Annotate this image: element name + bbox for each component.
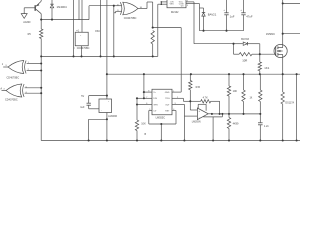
svg-text:5: 5 [149, 109, 150, 111]
svg-text:5V: 5V [81, 96, 84, 98]
svg-text:VSS: VSS [170, 3, 175, 5]
svg-text:1: 1 [173, 91, 174, 93]
svg-text:OUT: OUT [165, 104, 170, 106]
svg-text:R15: R15 [196, 86, 201, 89]
svg-text:CD4070BC: CD4070BC [5, 98, 18, 101]
svg-text:DS117A: DS117A [285, 101, 294, 104]
svg-text:1uF: 1uF [230, 15, 235, 19]
svg-text:7: 7 [146, 97, 147, 99]
svg-text:A: A [0, 87, 2, 91]
svg-text:4K99: 4K99 [233, 122, 239, 125]
svg-text:6: 6 [146, 103, 147, 105]
svg-text:CD4070BC: CD4070BC [7, 77, 20, 80]
svg-text:BAY93: BAY93 [241, 38, 249, 41]
svg-text:BAV21: BAV21 [208, 12, 217, 16]
svg-text:TRG: TRG [165, 98, 170, 100]
svg-text:8: 8 [148, 91, 149, 93]
svg-text:IR2102: IR2102 [171, 12, 179, 14]
svg-text:4: 4 [173, 109, 174, 111]
svg-text:10K: 10K [141, 122, 146, 125]
svg-text:10K: 10K [233, 90, 238, 93]
svg-text:10R: 10R [242, 58, 247, 62]
svg-text:1uF: 1uF [80, 106, 85, 109]
svg-text:THR: THR [153, 104, 158, 106]
svg-text:1N4004: 1N4004 [57, 5, 68, 9]
svg-text:1N5819: 1N5819 [266, 33, 275, 36]
svg-text:CD4070BC: CD4070BC [77, 47, 90, 50]
svg-text:OSC: OSC [95, 31, 100, 33]
svg-text:1.2n: 1.2n [264, 125, 269, 128]
svg-text:1K1: 1K1 [264, 66, 269, 70]
svg-text:LM393N: LM393N [192, 122, 201, 124]
svg-text:CD4070BC: CD4070BC [124, 17, 137, 20]
svg-text:2: 2 [177, 97, 178, 99]
svg-text:LM555C: LM555C [156, 116, 166, 119]
svg-text:AGND: AGND [23, 21, 30, 24]
svg-text:RST: RST [165, 110, 170, 112]
svg-text:LM2936: LM2936 [108, 115, 117, 118]
svg-text:GND: GND [165, 92, 170, 94]
svg-text:1K: 1K [250, 98, 253, 100]
svg-text:4.7K: 4.7K [203, 96, 208, 99]
svg-text:DIS: DIS [153, 98, 157, 100]
svg-text:3: 3 [175, 103, 176, 105]
svg-text:47uF: 47uF [246, 15, 253, 19]
